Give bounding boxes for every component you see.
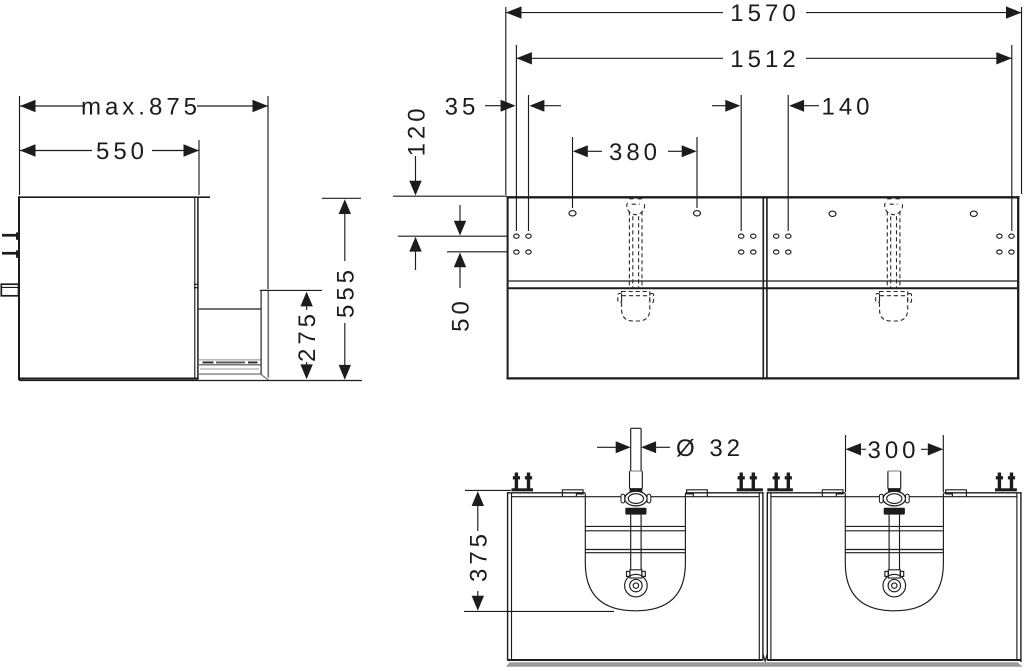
carcass right unit (plan) [767, 492, 1021, 662]
basin cutout left [585, 493, 685, 610]
dimension 380 [573, 137, 698, 208]
junction V-notch between units [763, 654, 767, 662]
dimension 375 [464, 490, 614, 611]
cabinet outline (front view) [507, 196, 1020, 379]
dimension 550 [20, 138, 199, 195]
carcass left unit (plan) [508, 492, 763, 661]
dimension 555 [322, 198, 361, 379]
svg-text:max.875: max.875 [81, 94, 201, 121]
cabinet body (side view) [18, 196, 210, 380]
svg-text:140: 140 [821, 93, 873, 120]
dimension 140 [712, 93, 874, 231]
dimension 300 [846, 435, 944, 492]
dimension 1570 [506, 0, 1022, 195]
fixing bracket notches on top edge [562, 490, 966, 497]
svg-text:300: 300 [867, 437, 919, 464]
svg-text:35: 35 [445, 93, 480, 120]
waste pipe assembly right (plan view) [879, 471, 909, 597]
svg-text:555: 555 [332, 266, 359, 318]
cross rails right [845, 526, 943, 552]
wall mounting pin lower [2, 250, 19, 257]
dimension 35 [445, 93, 561, 231]
wall mounting pin upper [2, 232, 19, 239]
svg-text:1512: 1512 [730, 46, 799, 73]
reference tick lines left of cabinet [393, 196, 508, 252]
countertop drill holes (front view) [569, 211, 977, 217]
svg-text:275: 275 [294, 310, 321, 362]
wall box (siphon template) [1, 284, 18, 296]
hidden waste pipe right (front view, dashed) [876, 199, 912, 321]
svg-text:1570: 1570 [730, 0, 799, 27]
open drawer (side view) [199, 290, 269, 380]
dimension 275 [262, 290, 322, 379]
svg-text:120: 120 [403, 104, 430, 156]
ground line [19, 380, 362, 382]
dimension max.875 [20, 94, 269, 289]
dimension 120 [403, 104, 430, 270]
dimension diameter 32 [597, 435, 744, 462]
svg-text:375: 375 [465, 530, 492, 582]
dimension 1512 [516, 45, 1011, 231]
svg-text:550: 550 [96, 138, 148, 165]
dimension 50 [448, 205, 475, 332]
console front edge band [506, 662, 1023, 666]
svg-text:Ø 32: Ø 32 [676, 435, 744, 462]
basin cutout right [845, 493, 943, 610]
svg-text:380: 380 [609, 139, 661, 166]
svg-text:50: 50 [448, 297, 475, 332]
cross rails left [585, 526, 685, 552]
